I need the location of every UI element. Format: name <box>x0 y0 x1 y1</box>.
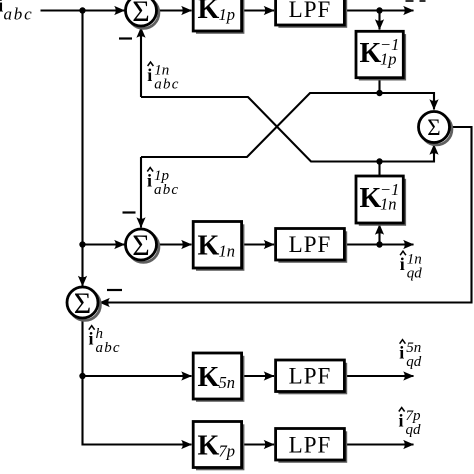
node junction row1 output <box>376 7 382 13</box>
svg-text:Σ: Σ <box>427 115 440 140</box>
block K1p inverse <box>356 31 406 80</box>
wire LPF row5 output <box>344 443 413 445</box>
wire input i_abc to sum S1 <box>41 9 125 11</box>
label i_qd^7p <box>399 408 422 439</box>
svg-text:1n: 1n <box>380 195 397 214</box>
label i_abc^1p <box>147 168 179 199</box>
block LPF row2 <box>276 229 348 263</box>
label i_qd^5n <box>399 340 422 371</box>
wire sum S1 to K1p <box>157 9 192 11</box>
svg-text:i: i <box>147 65 152 85</box>
svg-text:LPF: LPF <box>289 0 332 22</box>
svg-text:i: i <box>400 254 405 274</box>
svg-text:LPF: LPF <box>289 232 332 257</box>
svg-text:K: K <box>198 431 220 462</box>
block LPF row5 <box>276 429 348 463</box>
label i_abc^1n <box>147 62 179 93</box>
block LPF row1 <box>276 0 348 28</box>
block K7p <box>193 422 244 471</box>
svg-text:7p: 7p <box>219 442 236 461</box>
wire junction row4 to K5n <box>83 375 192 377</box>
wire LPF row4 output <box>344 375 413 377</box>
node junction row4 <box>79 373 85 379</box>
node crossover top-right junction <box>376 90 382 96</box>
node junction row2 output <box>376 241 382 247</box>
block K5n <box>193 353 244 402</box>
wire LPF row1 output <box>344 9 413 11</box>
wire main vertical bus to sum S3 <box>81 11 83 287</box>
wire LPF row2 output <box>344 243 413 245</box>
svg-text:i: i <box>399 343 404 363</box>
wire sum S2 to K1n <box>157 243 192 245</box>
svg-text:LPF: LPF <box>289 432 332 457</box>
svg-text:LPF: LPF <box>289 363 332 388</box>
wire sum SR output feedback to sum S3 <box>100 127 472 303</box>
svg-text:1p: 1p <box>219 5 236 24</box>
svg-text:qd: qd <box>406 354 422 370</box>
sum SR <box>419 112 452 145</box>
svg-text:i: i <box>89 329 94 349</box>
svg-text:qd: qd <box>406 422 422 438</box>
node input junction <box>79 7 85 13</box>
wire K5n to LPF row4 <box>242 375 274 377</box>
wire K1p inverse down to crossover node <box>378 78 380 93</box>
svg-text:K: K <box>198 362 220 393</box>
block LPF row4 <box>276 360 348 394</box>
label input i_abc <box>0 0 33 24</box>
sum S2 <box>126 229 159 262</box>
wire K7p to LPF row5 <box>242 443 274 445</box>
wire K1p to LPF row1 <box>242 9 274 11</box>
svg-text:K: K <box>360 183 382 214</box>
wire feedback up into sum S1 minus input <box>140 28 142 98</box>
wire K1n to LPF row2 <box>242 243 274 245</box>
label i_qd^1n <box>400 251 423 282</box>
svg-text:abc: abc <box>154 182 179 198</box>
minus sign at sum S3 <box>107 289 122 291</box>
block K1n <box>193 222 244 271</box>
minus sign at sum S1 <box>119 37 132 39</box>
svg-text:1n: 1n <box>219 242 236 261</box>
svg-text:Σ: Σ <box>132 0 149 28</box>
sum S3 <box>67 287 100 320</box>
block K1p <box>193 0 244 34</box>
node crossover bottom-right junction <box>376 158 382 164</box>
svg-text:qd: qd <box>407 266 423 282</box>
svg-text:Σ: Σ <box>132 229 149 262</box>
svg-text:Σ: Σ <box>74 287 91 320</box>
wire crossover path A: left-top to right-bottom into sum SR bottom <box>141 97 434 162</box>
svg-text:i: i <box>147 171 152 191</box>
label i_qd^1p cropped remnant <box>406 0 426 2</box>
wire node to K1n inverse top <box>378 162 380 177</box>
svg-text:K: K <box>198 231 220 262</box>
wire feedback down into sum S2 minus input <box>140 157 142 228</box>
wire junction row2 to sum S2 <box>83 243 125 245</box>
block K1n inverse <box>356 176 406 226</box>
wire junction row2 output up into K1n inverse bottom <box>378 225 380 245</box>
svg-text:abc: abc <box>154 77 179 93</box>
wire junction row1 down into K1p inverse <box>378 11 380 30</box>
label i_abc^h <box>89 326 121 357</box>
svg-text:K: K <box>198 0 220 25</box>
minus sign at sum S2 <box>123 211 136 213</box>
svg-text:5n: 5n <box>219 373 236 392</box>
wire crossover path B: left-bottom to right-top into sum SR top <box>141 93 434 157</box>
wire sum S3 output down then right to K7p <box>83 318 192 445</box>
node junction row2 <box>79 241 85 247</box>
svg-text:abc: abc <box>96 340 121 356</box>
svg-text:K: K <box>360 38 382 69</box>
sum S1 <box>126 0 159 28</box>
svg-text:1p: 1p <box>380 50 397 69</box>
svg-text:abc: abc <box>4 5 34 24</box>
svg-text:i: i <box>399 411 404 431</box>
